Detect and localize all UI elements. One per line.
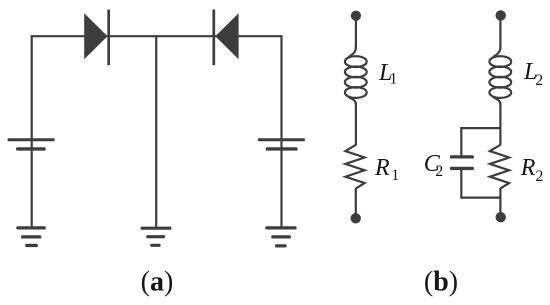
inductor L1 [345,47,367,106]
ground right [265,226,296,247]
wire top (branch L1R1) [355,18,357,49]
svg-text:1: 1 [389,70,397,87]
svg-text:(b): (b) [424,266,458,297]
svg-text:2: 2 [535,72,543,89]
node dot top (branch L1R1) [351,11,361,21]
wire top horizontal of RC parallel [461,127,500,129]
battery B1 [8,138,55,150]
wire capacitor branch lower [460,170,462,199]
diode D2 [214,10,239,66]
svg-text:2: 2 [435,163,443,180]
wire right vertical [280,36,282,226]
ground middle [141,227,172,247]
node dot bottom (branch L2R2C2) [496,212,506,222]
svg-text:R: R [374,155,390,181]
wire between R1 and bottom node [355,188,357,214]
wire capacitor branch upper [460,127,462,155]
node dot bottom (branch L1R1) [351,213,361,223]
resistor R1 [345,145,364,189]
node dot top (branch L2) [496,10,506,20]
wire top horizontal (circuit a) [31,35,283,37]
svg-text:(a): (a) [141,266,174,297]
ground left [16,226,46,247]
capacitor C2 [450,155,474,170]
resistor R2 [490,145,509,189]
battery B2 [258,138,305,150]
wire between L1 and R1 [355,103,357,145]
wire bottom horizontal of RC parallel [461,197,500,199]
wire left vertical [31,36,33,226]
wire middle vertical [155,36,157,227]
inductor L2 [489,47,511,106]
diode D1 [84,10,109,66]
wire top (branch L2) [499,18,501,49]
svg-text:R: R [520,155,536,181]
wire between L2 and node [499,103,501,145]
wire between R2 and bottom node [499,188,501,214]
svg-text:2: 2 [535,168,543,185]
svg-text:1: 1 [391,167,399,184]
